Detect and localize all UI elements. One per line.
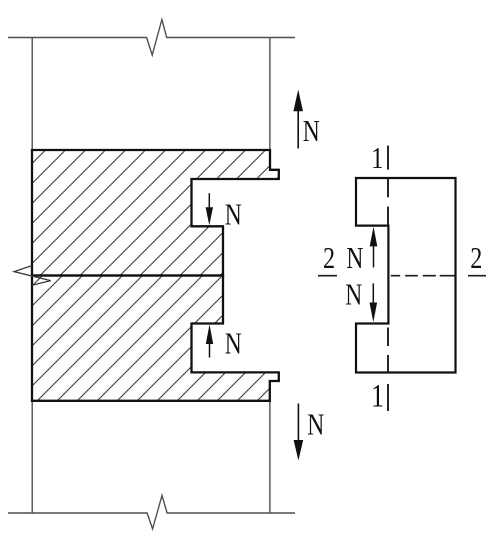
svg-text:N: N [307,406,324,441]
upper plate hatched [32,150,279,276]
svg-text:N: N [346,240,363,275]
lower plate hatched [32,276,279,401]
svg-text:N: N [345,277,362,312]
left column line lower [31,401,33,513]
section line 1-1 vertical [387,146,389,411]
right column line upper [269,38,271,151]
svg-text:2: 2 [323,241,335,276]
section arrow N up [370,227,378,268]
section outline [356,178,456,373]
notch arrow N down [206,193,213,225]
joint line break zigzag [14,266,51,286]
force arrow N bottom [294,404,304,461]
left column line upper [31,38,33,151]
svg-text:2: 2 [470,241,482,276]
right column line lower [269,401,271,513]
notch arrow N up [206,324,213,357]
bottom break line [8,495,295,529]
svg-text:1: 1 [371,141,383,176]
svg-text:N: N [225,196,242,231]
section arrow N down [370,283,378,322]
svg-text:1: 1 [371,379,384,415]
top break line [8,20,295,56]
svg-text:N: N [225,325,242,360]
section line 2-2 horizontal [318,275,486,277]
force arrow N top [293,90,303,149]
svg-text:N: N [303,113,320,148]
